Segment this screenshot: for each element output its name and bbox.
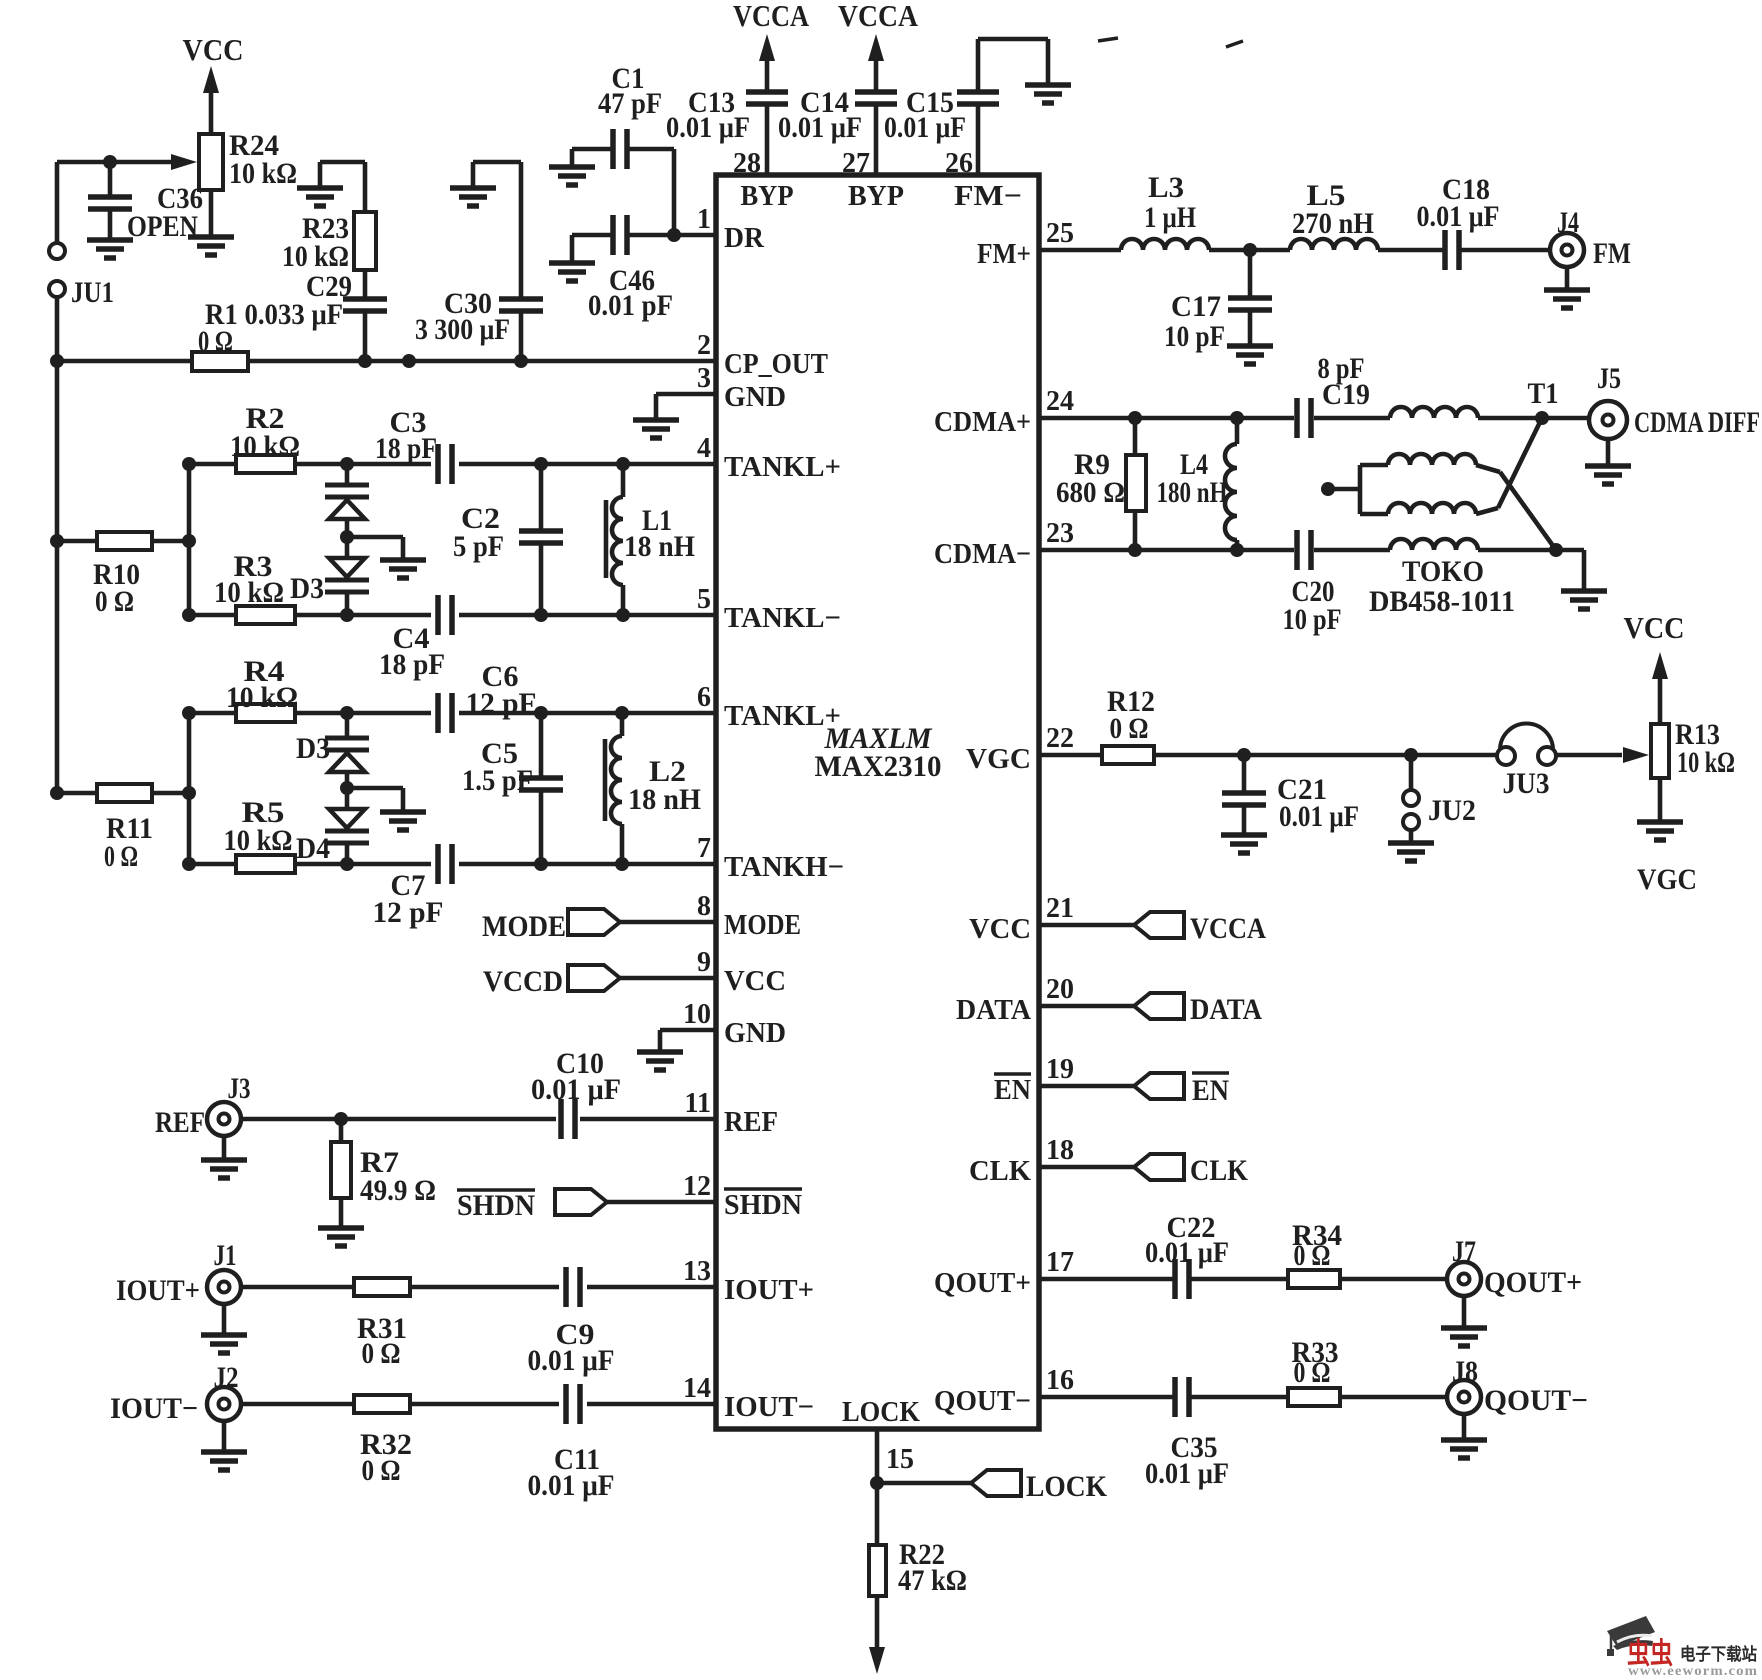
- svg-text:7: 7: [697, 833, 711, 864]
- svg-text:23: 23: [1046, 518, 1074, 549]
- VCC arrow above R13: [1652, 652, 1668, 724]
- svg-text:10 kΩ: 10 kΩ: [214, 576, 284, 609]
- watermark logo graduation cap: [1607, 1616, 1655, 1656]
- svg-text:REF: REF: [155, 1106, 205, 1139]
- inductor L1 18nH: [606, 464, 695, 615]
- svg-text:GND: GND: [724, 381, 786, 413]
- wire tank1 left vertical: [187, 464, 192, 615]
- ground under J5: [1585, 463, 1631, 469]
- ground under J2: [201, 1449, 247, 1455]
- svg-text:VCCD: VCCD: [483, 965, 563, 998]
- wire CDMA- to ground: [1582, 550, 1587, 591]
- svg-text:www.eeworm.com: www.eeworm.com: [1628, 1664, 1758, 1675]
- T1 part number TOKO DB458-1011: [1369, 555, 1515, 618]
- svg-text:18 pF: 18 pF: [375, 432, 437, 465]
- svg-text:BYP: BYP: [848, 180, 904, 212]
- wire tank2 left vertical: [187, 713, 192, 864]
- jumper JU1: [49, 162, 114, 309]
- svg-text:QOUT−: QOUT−: [934, 1385, 1031, 1417]
- svg-text:EN: EN: [994, 1074, 1031, 1106]
- svg-text:CLK: CLK: [969, 1155, 1031, 1187]
- node VCCD input flag pin9: [483, 965, 716, 998]
- wire TANKL+ row pin6: [182, 706, 716, 720]
- ground under C17: [1227, 343, 1273, 349]
- svg-text:12 pF: 12 pF: [466, 687, 537, 720]
- capacitor C1 47pF: [572, 62, 674, 235]
- svg-text:CDMA DIFF: CDMA DIFF: [1634, 406, 1760, 439]
- resistor R11 0 ohm: [57, 784, 196, 873]
- svg-text:0.01 μF: 0.01 μF: [1417, 200, 1500, 233]
- svg-text:3: 3: [697, 363, 711, 394]
- svg-text:0.01 μF: 0.01 μF: [666, 111, 750, 144]
- svg-text:SHDN: SHDN: [457, 1189, 535, 1222]
- svg-text:DATA: DATA: [956, 994, 1031, 1026]
- svg-text:VGC: VGC: [966, 743, 1031, 775]
- svg-text:D3: D3: [290, 572, 324, 605]
- capacitor C22 0.01uF: [1145, 1211, 1229, 1299]
- svg-text:QOUT+: QOUT+: [1484, 1266, 1582, 1299]
- capacitor C19 8pF: [1297, 352, 1370, 438]
- svg-text:10 kΩ: 10 kΩ: [282, 240, 349, 273]
- svg-text:0 Ω: 0 Ω: [362, 1454, 401, 1487]
- resistor R4 10k: [226, 655, 298, 722]
- svg-text:18 pF: 18 pF: [379, 648, 445, 681]
- svg-text:VGC: VGC: [1637, 863, 1697, 896]
- wire pin15 LOCK down: [870, 1429, 884, 1545]
- wire TANKL- row pin5: [182, 608, 716, 622]
- capacitor C46 0.01pF: [572, 215, 674, 322]
- svg-text:VCCA: VCCA: [733, 0, 810, 33]
- svg-text:18 nH: 18 nH: [624, 530, 695, 563]
- IC left pin names: [724, 222, 844, 1423]
- resistor R24 10k potentiometer: [199, 129, 297, 237]
- connector J1 IOUT+: [116, 1239, 241, 1335]
- svg-text:0 Ω: 0 Ω: [95, 585, 134, 618]
- svg-text:180 nH: 180 nH: [1157, 476, 1228, 509]
- svg-text:12 pF: 12 pF: [373, 896, 444, 929]
- resistor R23 10k: [282, 212, 376, 273]
- diode D3 varactor tank2 upper: [296, 713, 369, 809]
- svg-text:TANKL+: TANKL+: [724, 451, 841, 483]
- ground right of C15: [1025, 82, 1071, 88]
- ground right of T1: [1561, 588, 1607, 594]
- ground above C30: [450, 185, 496, 191]
- svg-text:18 nH: 18 nH: [628, 783, 701, 816]
- svg-text:OPEN: OPEN: [127, 210, 198, 243]
- svg-text:0 Ω: 0 Ω: [104, 840, 138, 873]
- resistor R32 0 ohm: [354, 1395, 412, 1487]
- svg-text:JU1: JU1: [71, 276, 114, 309]
- svg-text:27: 27: [842, 148, 870, 179]
- node LOCK output flag: [877, 1470, 1108, 1503]
- ground under J4: [1544, 287, 1590, 293]
- capacitor C36 OPEN: [88, 162, 203, 243]
- capacitor C11 0.01uF: [528, 1384, 615, 1502]
- svg-text:0.01 μF: 0.01 μF: [528, 1344, 615, 1377]
- wire IOUT+ row pin13: [241, 1285, 716, 1290]
- capacitor C20 10pF: [1283, 530, 1342, 636]
- IC right pin names: [842, 238, 1031, 1428]
- connector J3 REF: [155, 1072, 251, 1160]
- svg-text:TANKH−: TANKH−: [724, 851, 844, 883]
- svg-text:10 kΩ: 10 kΩ: [1677, 746, 1735, 779]
- svg-text:47 pF: 47 pF: [598, 87, 662, 120]
- capacitor C14 0.01uF with VCCA arrow: [778, 34, 897, 175]
- svg-text:CLK: CLK: [1190, 1154, 1249, 1187]
- svg-text:0 Ω: 0 Ω: [198, 325, 233, 358]
- svg-text:0.01 μF: 0.01 μF: [528, 1469, 615, 1502]
- capacitor C15 0.01uF: [884, 39, 1048, 175]
- wire QOUT+ row pin17: [1039, 1277, 1447, 1282]
- svg-text:19: 19: [1046, 1054, 1074, 1085]
- capacitor C21 0.01uF: [1222, 755, 1359, 835]
- capacitor C9 0.01uF: [528, 1267, 615, 1377]
- wire IOUT- row pin14: [241, 1402, 716, 1407]
- ground at D3 midpoint: [347, 537, 426, 578]
- wire QOUT- row pin16: [1039, 1395, 1447, 1400]
- svg-text:10 kΩ: 10 kΩ: [229, 157, 297, 190]
- svg-text:CDMA−: CDMA−: [934, 538, 1031, 570]
- wire left rail: [50, 297, 64, 800]
- connector J5 CDMA DIFF: [1589, 362, 1760, 466]
- resistor R22 47k: [869, 1538, 967, 1597]
- svg-text:GND: GND: [724, 1017, 786, 1049]
- svg-text:0.01 μF: 0.01 μF: [1145, 1457, 1229, 1490]
- wire TANKL+ row pin4: [182, 457, 716, 471]
- svg-text:680 Ω: 680 Ω: [1056, 476, 1125, 509]
- diode D4 varactor tank2 lower: [296, 809, 369, 865]
- svg-text:VCCA: VCCA: [1190, 912, 1266, 945]
- svg-text:10: 10: [683, 999, 711, 1030]
- svg-text:2: 2: [697, 330, 711, 361]
- svg-text:26: 26: [945, 148, 973, 179]
- svg-text:TANKL+: TANKL+: [724, 700, 841, 732]
- pin numbers right side: [1046, 218, 1074, 1396]
- svg-text:0.01 pF: 0.01 pF: [588, 289, 673, 322]
- svg-text:VCC: VCC: [183, 32, 244, 67]
- svg-text:0.01 μF: 0.01 μF: [531, 1073, 621, 1106]
- svg-text:D4: D4: [296, 832, 330, 865]
- inductor L3 1uH: [1121, 171, 1209, 250]
- capacitor C10 0.01uF: [531, 1047, 621, 1139]
- svg-text:REF: REF: [724, 1106, 778, 1138]
- node VCCA flag pin21: [1039, 912, 1266, 945]
- svg-text:8: 8: [697, 891, 711, 922]
- resistor R33 0 ohm: [1288, 1336, 1340, 1406]
- svg-text:10 kΩ: 10 kΩ: [230, 430, 300, 463]
- wire JU3 to R13: [1556, 747, 1649, 763]
- capacitor C35 0.01uF: [1145, 1377, 1229, 1490]
- svg-text:SHDN: SHDN: [724, 1189, 802, 1221]
- resistor R3 10k: [214, 550, 295, 624]
- ground at pin 3: [633, 394, 716, 438]
- ground under J1: [201, 1332, 247, 1338]
- resistor R13 10k potentiometer: [1651, 718, 1735, 822]
- capacitor C5 1.5pF: [462, 713, 563, 864]
- capacitor C7 12pF: [373, 844, 453, 929]
- svg-text:IOUT−: IOUT−: [110, 1392, 198, 1425]
- inductor L2 18nH: [605, 713, 701, 864]
- connector J7 QOUT+: [1447, 1235, 1582, 1328]
- svg-text:VCCA: VCCA: [838, 0, 919, 33]
- wire CP_OUT row: [57, 354, 716, 368]
- IC top pin labels BYP BYP FM-: [741, 180, 1023, 212]
- svg-text:DR: DR: [724, 222, 765, 254]
- svg-text:J1: J1: [214, 1239, 237, 1272]
- svg-text:0.01 μF: 0.01 μF: [778, 111, 862, 144]
- ground under J8: [1441, 1437, 1487, 1443]
- inductor L5 270nH: [1290, 179, 1378, 250]
- diode D3 varactor pair tank1: [290, 464, 369, 615]
- svg-text:JU2: JU2: [1428, 794, 1476, 827]
- svg-text:J5: J5: [1597, 362, 1621, 395]
- svg-text:MODE: MODE: [724, 909, 801, 941]
- wiper arrow wire into R24: [57, 154, 197, 170]
- ground left of C1: [549, 164, 595, 170]
- resistor R31 0 ohm: [354, 1278, 410, 1370]
- svg-text:4: 4: [697, 433, 711, 464]
- svg-text:VCC: VCC: [724, 965, 786, 997]
- capacitor C2 5pF: [453, 464, 563, 615]
- svg-text:0 Ω: 0 Ω: [1110, 712, 1149, 745]
- node MODE input flag pin8: [482, 909, 716, 943]
- ground under JU2: [1388, 840, 1434, 846]
- svg-text:LOCK: LOCK: [842, 1396, 920, 1428]
- node DATA flag pin20: [1039, 993, 1262, 1026]
- svg-text:3 300 μF: 3 300 μF: [415, 313, 510, 346]
- ground under R24: [188, 234, 234, 240]
- resistor R2 10k: [230, 402, 300, 473]
- resistor R12 0 ohm: [1102, 685, 1155, 764]
- ground at D4 midpoint: [347, 788, 426, 830]
- transformer T1 primary top winding: [1390, 377, 1559, 418]
- svg-text:0 Ω: 0 Ω: [362, 1337, 401, 1370]
- svg-text:CDMA+: CDMA+: [934, 406, 1031, 438]
- wire VGC row pin22: [1039, 748, 1497, 762]
- svg-text:16: 16: [1046, 1365, 1074, 1396]
- svg-text:17: 17: [1046, 1247, 1074, 1278]
- ground under R13: [1637, 819, 1683, 825]
- svg-text:0.01 μF: 0.01 μF: [1279, 800, 1359, 833]
- inductor L4 180nH: [1157, 418, 1238, 550]
- svg-text:18: 18: [1046, 1135, 1074, 1166]
- capacitor C6 12pF: [438, 660, 537, 733]
- ground at pin 10: [637, 1030, 716, 1070]
- svg-text:270 nH: 270 nH: [1292, 207, 1374, 240]
- svg-text:C19: C19: [1322, 378, 1370, 411]
- svg-text:5: 5: [697, 584, 711, 615]
- svg-text:25: 25: [1046, 218, 1074, 249]
- svg-text:14: 14: [683, 1373, 711, 1404]
- svg-text:J3: J3: [228, 1072, 251, 1105]
- wire TANKH- row pin7: [182, 857, 716, 871]
- svg-text:0.01 μF: 0.01 μF: [884, 111, 966, 144]
- svg-text:QOUT−: QOUT−: [1484, 1384, 1588, 1417]
- svg-text:0.01 μF: 0.01 μF: [1145, 1236, 1229, 1269]
- node pin1 DR wire: [667, 228, 716, 242]
- svg-text:12: 12: [683, 1171, 711, 1202]
- svg-text:DATA: DATA: [1190, 993, 1262, 1026]
- connector J4 FM: [1550, 206, 1631, 290]
- svg-text:电子下载站: 电子下载站: [1680, 1644, 1757, 1664]
- svg-text:10 kΩ: 10 kΩ: [224, 824, 293, 857]
- svg-text:0 Ω: 0 Ω: [1294, 1356, 1331, 1389]
- svg-text:FM: FM: [1593, 237, 1631, 270]
- transformer T1 primary bottom winding: [1390, 539, 1478, 550]
- wire FM+ row pin25: [1039, 243, 1549, 257]
- svg-text:BYP: BYP: [741, 180, 794, 212]
- arrow to negative supply at bottom: [869, 1596, 885, 1674]
- svg-text:MODE: MODE: [482, 910, 566, 943]
- svg-text:IOUT+: IOUT+: [724, 1274, 814, 1306]
- svg-text:20: 20: [1046, 974, 1074, 1005]
- resistor R5 10k: [224, 796, 296, 873]
- svg-text:C17: C17: [1171, 290, 1221, 323]
- svg-text:D3: D3: [296, 732, 330, 765]
- capacitor C4 18pF: [379, 595, 452, 681]
- svg-text:21: 21: [1046, 893, 1074, 924]
- svg-text:L3: L3: [1148, 171, 1184, 204]
- ground under J7: [1441, 1325, 1487, 1331]
- svg-text:5 pF: 5 pF: [453, 530, 504, 563]
- jumper JU2: [1403, 755, 1476, 843]
- svg-text:JU3: JU3: [1503, 767, 1550, 800]
- svg-text:1: 1: [697, 204, 711, 235]
- VCC arrow up: [203, 66, 219, 134]
- svg-text:TANKL−: TANKL−: [724, 602, 841, 634]
- svg-text:LOCK: LOCK: [1026, 1470, 1108, 1503]
- capacitor C29 0.033uF: [205, 270, 387, 361]
- svg-text:15: 15: [886, 1444, 914, 1475]
- ground under C21: [1221, 832, 1267, 838]
- svg-text:1.5 pF: 1.5 pF: [462, 764, 533, 797]
- svg-text:47 kΩ: 47 kΩ: [898, 1564, 967, 1597]
- capacitor C13 0.01uF with VCCA arrow: [666, 34, 788, 175]
- ground left of C46: [549, 260, 595, 266]
- connector J2 IOUT-: [110, 1361, 241, 1452]
- svg-text:9: 9: [697, 947, 711, 978]
- pin numbers left side: [683, 204, 711, 1404]
- capacitor C18 0.01uF: [1417, 173, 1500, 270]
- op-amp U1 MAX2310 IC body: [716, 175, 1039, 1429]
- svg-text:VCC: VCC: [1624, 610, 1685, 645]
- capacitor C17 10pF: [1164, 250, 1272, 353]
- resistor R9 680 ohm: [1056, 418, 1146, 550]
- scan speck 1: [1098, 38, 1118, 41]
- svg-text:24: 24: [1046, 386, 1074, 417]
- node EN flag pin19: [1039, 1073, 1229, 1107]
- ground under C36: [87, 237, 133, 243]
- svg-text:DB458-1011: DB458-1011: [1369, 585, 1515, 618]
- svg-text:CP_OUT: CP_OUT: [724, 348, 828, 380]
- svg-text:MAX2310: MAX2310: [815, 750, 942, 783]
- svg-text:6: 6: [697, 682, 711, 713]
- node CLK flag pin18: [1039, 1154, 1249, 1187]
- wire REF row pin11: [241, 1112, 716, 1126]
- connector J8 QOUT-: [1447, 1355, 1588, 1440]
- svg-text:T1: T1: [1528, 377, 1559, 410]
- pin numbers top side: [733, 148, 973, 179]
- svg-text:11: 11: [685, 1088, 711, 1119]
- svg-text:49.9 Ω: 49.9 Ω: [360, 1174, 436, 1207]
- ground under R7: [318, 1225, 364, 1231]
- svg-text:IOUT+: IOUT+: [116, 1274, 200, 1307]
- svg-text:TOKO: TOKO: [1402, 555, 1484, 588]
- ground under J3: [201, 1157, 247, 1163]
- svg-text:VCC: VCC: [969, 913, 1031, 945]
- svg-text:IOUT−: IOUT−: [724, 1391, 814, 1423]
- svg-text:13: 13: [683, 1256, 711, 1287]
- svg-text:FM−: FM−: [954, 180, 1022, 212]
- svg-text:FM+: FM+: [977, 238, 1031, 270]
- svg-text:QOUT+: QOUT+: [934, 1267, 1031, 1299]
- wire CDMA+ row pin24: [1039, 411, 1593, 425]
- resistor R1 0 ohm: [192, 325, 248, 371]
- capacitor C3 18pF: [375, 406, 452, 484]
- svg-text:10 pF: 10 pF: [1164, 320, 1225, 353]
- svg-text:0 Ω: 0 Ω: [1294, 1239, 1331, 1272]
- wire CDMA- row pin23: [1039, 543, 1584, 557]
- svg-text:10 kΩ: 10 kΩ: [226, 681, 298, 714]
- svg-text:28: 28: [733, 148, 761, 179]
- capacitor C30 3300uF: [415, 162, 543, 361]
- transformer T1 secondary winding with crossover: [1321, 418, 1556, 550]
- resistor R10 0 ohm: [57, 532, 196, 618]
- jumper JU3: [1497, 724, 1556, 801]
- svg-text:10 pF: 10 pF: [1283, 603, 1342, 636]
- svg-text:22: 22: [1046, 723, 1074, 754]
- svg-text:1 μH: 1 μH: [1144, 201, 1196, 234]
- resistor R34 0 ohm: [1288, 1219, 1342, 1288]
- resistor R7 49.9 ohm: [331, 1119, 436, 1228]
- node SHDN input flag pin12: [457, 1189, 716, 1222]
- svg-text:EN: EN: [1192, 1074, 1229, 1107]
- scan speck 2: [1226, 41, 1243, 47]
- ground above R23: [297, 162, 365, 212]
